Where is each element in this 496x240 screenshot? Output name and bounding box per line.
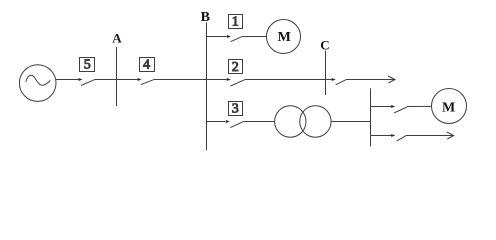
switch 3 contact arrowhead xyxy=(226,120,230,123)
outgoing feeder arrow xyxy=(388,76,395,83)
wire bus B to switch 1 xyxy=(207,36,227,38)
bus D vertical line xyxy=(370,88,372,146)
svg-text:5: 5 xyxy=(84,58,91,73)
wire transformer T1 to bus D xyxy=(331,121,370,123)
wire generator to switch 5 xyxy=(56,79,79,81)
wire switch 2 to switch C xyxy=(245,79,332,81)
wire switch 6 to motor M2 xyxy=(407,105,432,107)
outgoing feeder arrow bottom xyxy=(447,132,454,139)
switch 6 contact arrowhead xyxy=(391,105,395,108)
switch 3 label box 3 xyxy=(229,102,243,117)
motor M2 xyxy=(432,89,467,124)
svg-text:M: M xyxy=(278,30,291,45)
switch 2 blade xyxy=(231,80,245,86)
wire switch 3 to transformer T1 xyxy=(243,121,275,123)
bus B vertical line xyxy=(206,23,208,150)
switch 5 contact arrowhead xyxy=(79,78,83,81)
transformer T1 xyxy=(275,106,332,137)
svg-text:3: 3 xyxy=(232,102,239,117)
switch 7 contact arrowhead xyxy=(391,134,395,137)
switch 2 label box 2 xyxy=(229,60,243,76)
wire switch 7 to outgoing feeder xyxy=(406,135,453,137)
svg-text:1: 1 xyxy=(232,15,239,30)
node A vertical line xyxy=(116,47,118,106)
svg-text:A: A xyxy=(112,31,122,46)
switch 7 blade xyxy=(397,136,407,142)
svg-text:4: 4 xyxy=(143,58,150,73)
switch 3 blade xyxy=(230,122,243,128)
switch 4 contact arrowhead xyxy=(138,78,142,81)
node C vertical line xyxy=(325,51,327,95)
svg-text:M: M xyxy=(442,101,455,116)
motor M1 xyxy=(267,20,301,54)
wire switch 5 to switch 4 xyxy=(95,79,138,81)
wire bus D to switch 6 xyxy=(371,106,392,108)
switch C blade xyxy=(336,80,346,85)
switch 5 label box 5 xyxy=(80,58,95,73)
wire bus B to switch 3 xyxy=(207,121,226,123)
wire switch C to outgoing feeder xyxy=(346,79,395,81)
switch 5 blade xyxy=(81,80,95,86)
generator G xyxy=(19,65,56,102)
switch 4 label box 4 xyxy=(140,58,155,73)
switch 1 label box 1 xyxy=(229,15,243,30)
svg-text:2: 2 xyxy=(232,60,239,75)
switch 6 blade xyxy=(394,107,407,113)
wire switch 4 to switch 2 xyxy=(154,79,227,81)
switch 1 blade xyxy=(231,37,242,42)
switch 2 contact arrowhead xyxy=(227,78,231,81)
wire bus D to switch 7 xyxy=(371,135,392,137)
svg-text:C: C xyxy=(320,37,329,52)
wire switch 1 to motor M1 xyxy=(242,36,267,38)
svg-text:B: B xyxy=(201,10,210,25)
switch 1 contact arrowhead xyxy=(227,35,231,38)
switch C contact arrowhead xyxy=(332,78,336,81)
switch 4 blade xyxy=(141,80,154,85)
